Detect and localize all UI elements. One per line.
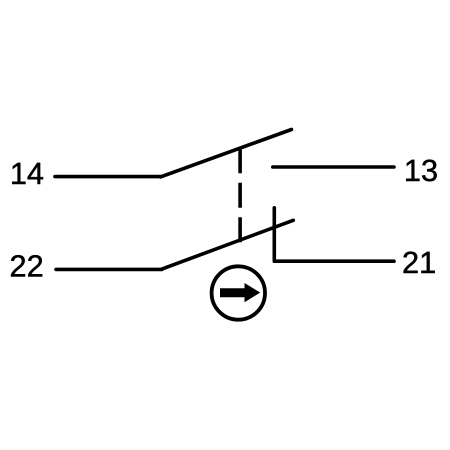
svg-text:22: 22 [10, 249, 44, 284]
mechanical linkage (dashed) [238, 148, 242, 242]
svg-text:13: 13 [404, 153, 438, 188]
svg-text:21: 21 [402, 245, 436, 280]
wire 14 lead [55, 175, 161, 179]
NC contact moving arm 22-21 [162, 220, 294, 269]
NC fixed contact stop and wire 21 lead [274, 208, 394, 261]
actuator symbol circle [212, 266, 265, 319]
wire 13 lead [273, 165, 394, 169]
NO contact moving arm 14-13 [161, 130, 292, 177]
actuator arrow [220, 283, 260, 302]
wire 22 lead [56, 268, 162, 272]
svg-text:14: 14 [10, 156, 44, 191]
